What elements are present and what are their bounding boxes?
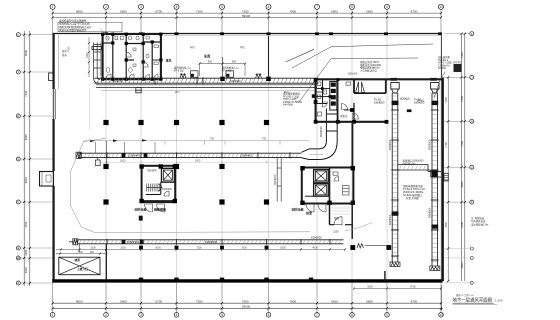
boundary leader diagonal	[84, 138, 106, 141]
toilet block outer walls	[102, 34, 163, 80]
core 1 labels	[135, 207, 167, 212]
grid axis 6 vertical line	[268, 9, 270, 312]
grid axis 7 top bubble	[315, 4, 320, 9]
grid axis 5 vertical line	[221, 9, 223, 312]
svg-text:4000: 4000	[24, 267, 28, 273]
main supply duct elbow	[302, 109, 338, 160]
structural columns row 1	[103, 120, 269, 125]
fan room block top wall	[315, 78, 442, 80]
svg-text:加压送风: 加压送风	[147, 168, 157, 172]
left grid axis D	[16, 281, 52, 285]
svg-text:8: 8	[351, 5, 353, 9]
structural columns row 2	[103, 164, 224, 169]
axis 5 leader segment	[222, 57, 224, 77]
structural columns row 4	[139, 245, 391, 250]
boundary dim text	[210, 138, 267, 141]
bottom dimension ticks	[52, 302, 443, 310]
svg-text:7800: 7800	[444, 222, 448, 228]
right grid axis H	[444, 119, 474, 123]
left grid axis H	[16, 114, 52, 118]
left wall inner face line	[57, 35, 59, 89]
svg-text:2: 2	[105, 313, 107, 317]
svg-text:630Φ500: 630Φ500	[429, 139, 432, 150]
core 2 right room fixtures	[333, 172, 349, 195]
svg-text:风机房: 风机房	[340, 114, 348, 118]
svg-text:900: 900	[232, 61, 237, 64]
svg-text:630Φ320: 630Φ320	[311, 236, 322, 240]
grid axis 8 vertical line	[351, 9, 353, 312]
vertical exhaust duct A fan unit	[391, 83, 399, 94]
east louver note	[453, 60, 463, 72]
svg-text:300x200: 300x200	[348, 72, 358, 75]
fan room wall duct lintels	[391, 78, 437, 81]
vertical exhaust duct B fan unit	[431, 83, 439, 94]
svg-text:E: E	[17, 246, 19, 250]
svg-text:疏散楼梯: 疏散楼梯	[154, 207, 166, 212]
svg-text:7000: 7000	[77, 251, 83, 254]
fan room interior labels	[340, 97, 425, 119]
svg-text:5600: 5600	[120, 9, 127, 13]
svg-text:消防电梯: 消防电梯	[135, 207, 147, 212]
note block fan specs center	[283, 92, 303, 107]
north duct drop connection	[136, 88, 141, 93]
duct B bottom outlet	[430, 266, 440, 271]
grid axis 10 bottom bubble	[439, 313, 444, 318]
svg-text:1000Φ400: 1000Φ400	[205, 240, 218, 244]
svg-text:排风机房: 排风机房	[400, 97, 411, 101]
grid axis 5 bottom bubble	[220, 313, 225, 318]
svg-text:FP-6.3型: FP-6.3型	[174, 69, 184, 73]
svg-text:地下一层通风平面图: 地下一层通风平面图	[453, 296, 493, 303]
east connecting duct	[398, 165, 441, 178]
duct B labels	[414, 98, 432, 218]
tick line left of ramp	[78, 244, 80, 252]
svg-text:2000: 2000	[120, 160, 126, 163]
top dimension lines	[53, 13, 441, 17]
svg-text:6900: 6900	[24, 134, 28, 140]
svg-text:竖井: 竖井	[62, 53, 67, 57]
svg-text:火灾时联动开启: 火灾时联动开启	[360, 68, 377, 72]
toilet fixtures	[106, 36, 161, 72]
left grid axis E	[16, 246, 52, 250]
svg-text:1: 1	[52, 5, 54, 9]
svg-text:4: 4	[176, 313, 178, 317]
duct 1 fire dampers	[122, 153, 148, 157]
svg-text:1250Φ400: 1250Φ400	[128, 154, 141, 158]
svg-text:5: 5	[221, 5, 223, 9]
svg-text:630Φ500: 630Φ500	[374, 101, 385, 104]
duct 1 drop outlet	[96, 158, 101, 166]
svg-text:6: 6	[268, 5, 270, 9]
svg-text:底距地0.5m: 底距地0.5m	[403, 161, 416, 165]
fan room supply shaft	[330, 82, 337, 111]
north corridor exhaust duct	[94, 77, 318, 87]
core 1 lift shaft	[162, 168, 175, 182]
svg-text:5600: 5600	[366, 9, 373, 13]
svg-text:2: 2	[105, 5, 107, 9]
left exterior wall	[54, 34, 56, 282]
wall fan room to stair core	[351, 122, 353, 168]
duct 1 hanger rods	[95, 142, 155, 153]
inner bottom dimension line	[353, 286, 442, 290]
svg-text:6000: 6000	[24, 50, 28, 56]
annex labels and leader	[333, 223, 372, 234]
note block top-left	[58, 19, 122, 33]
svg-text:5: 5	[221, 313, 223, 317]
svg-text:D: D	[17, 281, 19, 285]
grid axis 7 vertical line	[316, 9, 318, 312]
svg-text:8700: 8700	[410, 286, 416, 289]
grid axis 1 top bubble	[50, 4, 55, 9]
vertical exhaust duct A	[391, 93, 399, 262]
svg-text:7000: 7000	[68, 46, 71, 52]
svg-text:1:100: 1:100	[495, 298, 503, 302]
duct 2 fire dampers	[122, 240, 144, 244]
core 1 interior partitions	[146, 182, 174, 194]
svg-text:750: 750	[262, 138, 267, 141]
annex interior texture	[332, 208, 350, 214]
right exterior wall	[441, 78, 444, 282]
duct 2 size labels	[127, 236, 322, 245]
svg-text:坡道: 坡道	[75, 258, 81, 262]
north duct size labels	[112, 79, 289, 94]
svg-text:G: G	[471, 165, 473, 169]
svg-text:7300: 7300	[196, 247, 202, 250]
svg-text:630Φ500: 630Φ500	[389, 139, 392, 150]
svg-text:750: 750	[210, 138, 215, 141]
right exterior wall upper thin segment	[441, 34, 443, 78]
left grid axis F	[16, 200, 52, 204]
svg-text:4: 4	[176, 5, 178, 9]
svg-text:59600: 59600	[242, 14, 251, 18]
svg-text:5600: 5600	[331, 299, 338, 303]
leader east fan text	[434, 72, 445, 98]
svg-text:1/E: 1/E	[16, 256, 20, 260]
grid axis 2 bottom bubble	[104, 313, 109, 318]
svg-text:7: 7	[316, 5, 318, 9]
right grid axis G	[444, 165, 474, 169]
boundary flow arrows	[90, 139, 147, 142]
svg-text:K: K	[471, 32, 473, 36]
svg-text:450Φ250: 450Φ250	[274, 174, 277, 185]
svg-text:风管均采用镀锌钢板制作: 风管均采用镀锌钢板制作	[59, 28, 87, 32]
svg-text:8600: 8600	[76, 9, 83, 13]
svg-text:7700: 7700	[460, 140, 464, 146]
wall right of ramp	[105, 244, 107, 280]
svg-text:车位: 车位	[190, 45, 195, 49]
fan room partitions	[316, 79, 386, 122]
bottom-left title arrow line	[440, 285, 442, 311]
stair core 2 outer walls	[302, 168, 354, 204]
svg-text:详见大样图: 详见大样图	[406, 196, 419, 200]
toilet block partitions	[103, 34, 161, 79]
lower dimension chain	[56, 247, 346, 254]
bottom wall pilasters	[139, 278, 313, 281]
door arc at wall top	[352, 113, 358, 119]
svg-text:车库: 车库	[204, 54, 211, 59]
top wall column marks	[104, 32, 442, 35]
grid axis 9 bottom bubble	[385, 313, 390, 318]
svg-text:5850: 5850	[460, 181, 464, 187]
leader curve top-left block	[100, 29, 109, 41]
core 2 labels	[292, 207, 313, 216]
svg-text:1500: 1500	[90, 247, 96, 250]
core 1 corner columns	[139, 164, 177, 203]
svg-text:8700: 8700	[411, 299, 418, 303]
svg-text:8600: 8600	[76, 299, 83, 303]
fan room block left wall	[315, 79, 317, 122]
toilet block corner dots	[101, 33, 163, 81]
svg-text:H: H	[17, 114, 19, 118]
north duct air terminal 1	[180, 74, 186, 78]
svg-text:1600: 1600	[24, 249, 28, 255]
svg-text:G: G	[17, 157, 19, 161]
svg-text:K: K	[17, 33, 19, 37]
svg-text:3: 3	[140, 5, 142, 9]
grid axis 8 bottom bubble	[350, 313, 355, 318]
core 1 small vent labels	[147, 168, 173, 191]
fan room double door	[356, 82, 365, 93]
svg-text:5600: 5600	[155, 247, 161, 250]
bottom dimension lines	[53, 303, 441, 308]
axis 6 wall segment	[268, 36, 270, 77]
grid axis 3 vertical line	[140, 9, 142, 312]
right grid axis J	[444, 75, 474, 79]
toilet door arcs	[106, 52, 158, 79]
right grid axis K	[444, 32, 474, 36]
fan coil unit 2	[226, 71, 234, 77]
svg-text:消防电梯: 消防电梯	[292, 207, 304, 212]
fan room block bottom wall	[315, 121, 387, 123]
lower east partition wall	[384, 271, 386, 281]
grid axis 4 vertical line	[176, 9, 178, 312]
north duct air terminal 2	[256, 74, 262, 78]
grid axis 1 vertical line	[52, 9, 54, 312]
svg-text:4600: 4600	[312, 247, 318, 250]
svg-text:7400: 7400	[460, 96, 464, 102]
vertical branch duct 450x250	[277, 158, 281, 202]
svg-text:3300: 3300	[120, 247, 126, 250]
left grid axis 1/E	[16, 256, 52, 260]
svg-text:5700: 5700	[155, 299, 162, 303]
svg-text:N=3kW: N=3kW	[438, 67, 447, 70]
svg-text:7300: 7300	[460, 52, 464, 58]
grid axis 7 bottom bubble	[315, 313, 320, 318]
fan room lintel mark	[312, 94, 316, 98]
svg-text:7800: 7800	[289, 9, 296, 13]
svg-text:1250Φ400: 1250Φ400	[127, 240, 140, 244]
svg-text:2000: 2000	[195, 160, 201, 163]
svg-text:8: 8	[351, 313, 353, 317]
ramp labels	[75, 258, 89, 271]
grid axis 5 top bubble	[220, 4, 225, 9]
grid axis 4 bottom bubble	[174, 313, 179, 318]
left dimension numbers	[24, 50, 28, 274]
svg-text:800Φ320: 800Φ320	[319, 126, 323, 137]
left grid axis K	[16, 33, 52, 37]
axis B dark stem	[105, 141, 107, 164]
svg-text:7800: 7800	[460, 222, 464, 228]
ramp dimension line	[56, 251, 107, 255]
note block east fan	[438, 55, 452, 70]
leader polyline upper	[292, 44, 433, 68]
right grid axis F	[444, 200, 474, 204]
grid axis 9 top bubble	[385, 4, 390, 9]
svg-text:9: 9	[386, 5, 388, 9]
svg-text:未注明距地3.0m: 未注明距地3.0m	[471, 222, 488, 226]
note block smoke vent	[360, 60, 382, 72]
duct 2 left end cap	[69, 239, 78, 245]
svg-text:2000: 2000	[86, 52, 89, 58]
svg-text:500Φ250: 500Φ250	[112, 79, 123, 83]
svg-text:储藏: 储藏	[334, 216, 339, 220]
air terminal near annex	[357, 244, 387, 249]
duct A bottom outlet	[390, 262, 400, 267]
svg-text:上坡入口: 上坡入口	[77, 267, 88, 271]
svg-text:6900: 6900	[24, 177, 28, 183]
right dimension lines	[462, 34, 465, 281]
svg-text:H: H	[471, 119, 473, 123]
annex door arc	[334, 217, 342, 225]
svg-text:7: 7	[316, 313, 318, 317]
grid axis 9 vertical line	[386, 9, 388, 312]
top dimension numbers	[76, 9, 418, 17]
grid axis 2 vertical line	[105, 9, 107, 312]
svg-text:10: 10	[439, 313, 443, 317]
left grid axis J	[16, 70, 52, 74]
right dimension sub-axis marks	[444, 247, 473, 284]
main horizontal duct lower	[78, 239, 344, 245]
drawing title	[453, 296, 503, 304]
grid axis 2 top bubble	[104, 4, 109, 9]
core 1 hydrant mark	[139, 216, 143, 221]
hanger dimension gate	[199, 61, 247, 76]
top dimension ticks	[52, 12, 443, 19]
fire compartment boundary	[71, 141, 310, 233]
ramp box	[59, 257, 100, 275]
fan room door arcs	[323, 102, 348, 110]
garage door leaf diagonal	[286, 49, 315, 62]
top exterior wall	[53, 34, 442, 36]
svg-text:9: 9	[386, 313, 388, 317]
svg-text:7400: 7400	[444, 97, 448, 103]
left dimension lines	[24, 31, 30, 286]
toilet block west dim line	[86, 37, 90, 130]
small dark mark between ducts	[407, 109, 412, 112]
svg-text:8700: 8700	[411, 9, 418, 13]
svg-text:W-1: W-1	[175, 90, 180, 94]
stair core 1 outer walls	[142, 166, 176, 202]
grid axis 3 top bubble	[139, 4, 144, 9]
svg-text:6: 6	[268, 313, 270, 317]
fan room wall column marks	[314, 78, 389, 124]
grid axis 10 top bubble	[439, 4, 444, 9]
grid axis 6 bottom bubble	[266, 313, 271, 318]
toilet block riser duct	[92, 43, 102, 84]
grid axis 6 top bubble	[266, 4, 271, 9]
svg-text:7400: 7400	[24, 221, 28, 227]
grid axis 3 bottom bubble	[139, 313, 144, 318]
note block right margin	[471, 216, 488, 226]
core 2 lobby partitions	[305, 170, 314, 197]
svg-text:900: 900	[208, 61, 213, 64]
core 2 corner columns	[300, 166, 355, 205]
east duct label row	[403, 159, 425, 166]
core 2 lift shaft lower	[314, 184, 329, 197]
svg-text:59600: 59600	[242, 304, 251, 308]
svg-text:FP-6.3型: FP-6.3型	[222, 69, 232, 73]
svg-text:5700: 5700	[155, 9, 162, 13]
svg-text:300Φ250: 300Φ250	[162, 188, 173, 191]
svg-text:7300: 7300	[196, 299, 203, 303]
duct 1 size labels	[128, 154, 253, 158]
svg-text:630Φ500: 630Φ500	[389, 214, 392, 225]
north duct inspection line	[101, 89, 315, 91]
svg-text:630Φ500: 630Φ500	[414, 101, 425, 104]
annex room walls	[330, 204, 353, 239]
core 1 stair flight	[147, 184, 163, 192]
core 1 door arcs	[145, 191, 170, 212]
svg-text:7500: 7500	[241, 247, 247, 250]
fan room junction dots	[321, 78, 339, 98]
svg-text:7300: 7300	[196, 9, 203, 13]
svg-text:5600: 5600	[120, 299, 127, 303]
svg-text:7100: 7100	[24, 90, 28, 96]
svg-text:5500: 5500	[280, 247, 286, 250]
svg-text:5800: 5800	[460, 262, 464, 268]
duct 1 left end cap	[76, 152, 81, 158]
svg-text:5600: 5600	[331, 9, 338, 13]
duct 1 lower dim line	[95, 160, 300, 164]
leader polyline lower	[299, 58, 418, 102]
core 2 door arcs below	[306, 204, 326, 212]
svg-text:3: 3	[140, 313, 142, 317]
main horizontal duct upper	[78, 152, 302, 158]
svg-text:7500: 7500	[242, 9, 249, 13]
inner right dimension line	[444, 76, 450, 282]
left vestibule box	[40, 172, 54, 187]
svg-text:3150: 3150	[333, 231, 339, 234]
svg-text:10: 10	[439, 5, 443, 9]
grid axis 4 top bubble	[174, 4, 179, 9]
north duct fire damper columns	[220, 77, 270, 81]
svg-text:排风: 排风	[166, 58, 172, 63]
svg-text:N=4.5kW: N=4.5kW	[283, 104, 294, 107]
right dimension numbers	[460, 52, 464, 269]
svg-text:630Φ320: 630Φ320	[230, 79, 241, 83]
svg-text:630Φ500: 630Φ500	[429, 207, 432, 218]
svg-text:7800: 7800	[289, 299, 296, 303]
grid axis 1 bottom bubble	[50, 313, 55, 318]
left wall small labels	[62, 49, 67, 57]
left wall exit notch	[49, 73, 54, 81]
east wall louver box	[444, 173, 448, 181]
duct B damper dark segment	[432, 171, 438, 178]
svg-text:7500: 7500	[242, 299, 249, 303]
left grid axis G	[16, 157, 52, 161]
aisle small labels	[190, 45, 245, 49]
svg-text:5600: 5600	[366, 299, 373, 303]
svg-text:1: 1	[52, 313, 54, 317]
core 2 lift shaft upper	[314, 170, 329, 183]
vertical exhaust duct B	[431, 93, 439, 266]
svg-text:1000Φ400: 1000Φ400	[240, 154, 253, 158]
bottom dimension numbers	[76, 299, 418, 308]
fan coil unit 1	[191, 71, 199, 77]
svg-text:7700: 7700	[444, 142, 448, 148]
svg-text:5600: 5600	[367, 286, 373, 289]
fan room small fixtures	[316, 82, 351, 116]
